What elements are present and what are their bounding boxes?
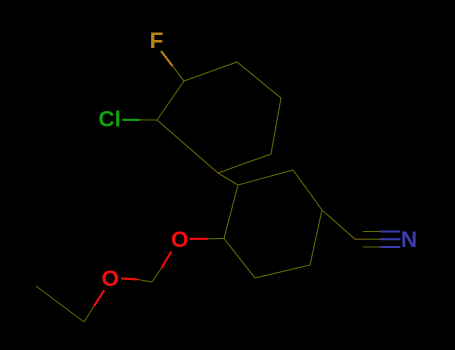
dark half of F bond bbox=[173, 66, 185, 81]
red half O2-CH2 bbox=[121, 278, 137, 279]
dark half of O1-B1 bond bbox=[208, 238, 225, 240]
ethyl CH2-CH3 bond bbox=[36, 286, 84, 322]
carbon skeleton (dark olive) bbox=[36, 62, 380, 322]
green half of Cl bond bbox=[122, 119, 139, 121]
ring A (3-chloro-4-fluorophenyl) bbox=[157, 62, 281, 173]
red half O1-CH2 bbox=[162, 252, 172, 269]
dark half of O1-CH2 bond bbox=[152, 268, 162, 282]
dark half of O2-ethylCH2 bond bbox=[84, 306, 94, 322]
svg-text:O: O bbox=[101, 266, 119, 291]
blue halves of nitrile triple bond bbox=[380, 232, 400, 248]
svg-text:F: F bbox=[150, 28, 164, 53]
nitrile triple bond dark halves bbox=[355, 238, 380, 240]
atom labels bbox=[98, 28, 417, 291]
svg-text:O: O bbox=[171, 227, 189, 252]
svg-text:N: N bbox=[401, 227, 417, 252]
dark half of O2-CH2 bond bbox=[137, 279, 152, 282]
gold half of F bond bbox=[161, 51, 173, 66]
red half O1-B1 bbox=[190, 238, 208, 240]
ring B (benzonitrile ring) bbox=[224, 170, 322, 278]
red halves of O bonds bbox=[94, 239, 208, 306]
svg-text:Cl: Cl bbox=[98, 107, 121, 132]
red half O2-ethyl bbox=[94, 290, 104, 306]
Ar-C nitrile bond bbox=[322, 210, 355, 239]
biphenyl bond V5-B2 bbox=[218, 173, 238, 185]
dark half of Cl bond bbox=[140, 119, 158, 121]
